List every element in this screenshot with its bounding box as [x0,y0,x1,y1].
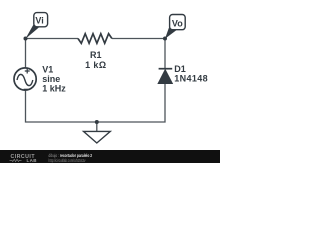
svg-text:http://circuitlab.com/c/5z542v: http://circuitlab.com/c/5z542v [49,158,87,163]
svg-text:D1: D1 [174,64,186,74]
wire top-right segment (resistor to Vo corner, down to diode) [112,39,165,69]
node flag Vo tail [165,25,176,39]
diode D1 triangle (anode, pointing up) [158,69,173,83]
resistor R1 zigzag [78,34,112,44]
svg-text:R1: R1 [90,50,102,60]
diode D1 cathode bar [159,68,173,70]
wire bottom-right segment [97,84,165,123]
footer watermark bar [0,150,220,163]
svg-text:1 kΩ: 1 kΩ [85,60,106,70]
junction node at Vi corner [24,37,28,41]
plus sign V1 [25,69,30,74]
minus sign V1 [24,88,29,90]
voltage source V1 circle [14,68,36,90]
svg-text:V1: V1 [42,65,53,75]
svg-text:LAB: LAB [27,158,38,163]
svg-text:1 kHz: 1 kHz [42,84,66,94]
footer logo resistor squiggle [10,159,22,161]
svg-text:1N4148: 1N4148 [174,74,208,84]
junction node at Vo corner [163,37,167,41]
ground stub wire [96,122,98,131]
wire left vertical below source [26,91,97,122]
junction node at ground [95,120,99,124]
svg-text:Vi: Vi [35,15,43,25]
wire top-left segment (Vi corner to resistor) [26,39,79,68]
sine wave inside V1 [17,74,33,85]
ground symbol triangle [84,131,111,143]
node flag Vo box [170,15,186,30]
node flag Vi tail [25,24,39,39]
node flag Vi box [34,13,48,27]
svg-text:Vo: Vo [172,18,183,28]
